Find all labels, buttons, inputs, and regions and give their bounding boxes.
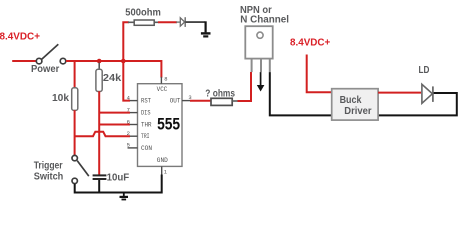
wire: bottom ground bus — [75, 175, 162, 193]
wire: ? ohms to transistor gate — [238, 72, 252, 101]
lead: into 500ohm — [128, 21, 134, 23]
svg-text:DIS: DIS — [141, 110, 151, 117]
svg-text:Switch: Switch — [34, 171, 64, 183]
svg-text:500ohm: 500ohm — [125, 6, 161, 18]
resistor R3 24k — [96, 69, 121, 91]
buck driver module — [332, 89, 378, 120]
wire: left supply feed — [12, 60, 36, 62]
svg-text:Power: Power — [31, 63, 59, 75]
svg-text:Driver: Driver — [344, 105, 371, 117]
svg-text:OUT: OUT — [170, 98, 181, 105]
wire: OUT pin to ? ohms — [190, 100, 212, 102]
pin 2 stub TRI — [127, 130, 138, 137]
svg-text:GND: GND — [157, 157, 168, 164]
svg-text:6: 6 — [127, 118, 130, 125]
svg-text:2: 2 — [127, 130, 130, 137]
svg-text:LD: LD — [419, 64, 430, 76]
wire: Q1 drain to bottom return bus to LD cathode — [270, 72, 457, 115]
wire: buck driver to LD anode — [378, 92, 421, 94]
resistor R2 10k — [52, 88, 78, 111]
svg-text:THR: THR — [141, 122, 152, 129]
pin 1 stub GND — [162, 166, 168, 175]
pin 7 stub DIS — [127, 106, 138, 113]
svg-text:10k: 10k — [52, 92, 69, 104]
transistor Q1 NPN / N-channel TO-220 — [240, 4, 289, 72]
svg-text:1: 1 — [164, 168, 168, 175]
op-amp U1 555 timer body — [138, 84, 183, 167]
pin 4 stub RST — [127, 94, 138, 101]
lead: ? ohms right — [232, 100, 238, 102]
wire: main power rail then down to VCC pin — [66, 61, 161, 78]
svg-text:CON: CON — [141, 145, 152, 152]
pin 5 stub CON (unconnected) — [127, 142, 138, 149]
wire: 24k bottom down to capacitor top plate — [98, 91, 100, 174]
lead: rail to 24k top — [98, 63, 100, 70]
svg-text:VCC: VCC — [157, 86, 168, 93]
wire: DIS from cap line — [99, 112, 130, 114]
capacitor C1 10uF — [93, 172, 130, 184]
laser diode LD — [419, 64, 433, 103]
node junction dot A — [97, 59, 102, 64]
svg-text:5: 5 — [127, 142, 130, 149]
svg-text:7: 7 — [127, 106, 130, 113]
resistor R1 500ohm — [125, 6, 161, 25]
wire: rail down to 10k — [74, 61, 76, 88]
svg-text:? ohms: ? ohms — [205, 87, 235, 99]
svg-text:10uF: 10uF — [107, 172, 130, 184]
svg-text:555: 555 — [157, 115, 180, 134]
wire: RST feed from rail junction B — [123, 61, 130, 101]
svg-text:8.4VDC+: 8.4VDC+ — [290, 37, 330, 49]
pin 3 stub OUT — [182, 94, 192, 101]
wire: THR from cap line — [99, 124, 130, 126]
svg-text:N Channel: N Channel — [240, 13, 289, 25]
wire: diode to ground G1 — [186, 21, 206, 23]
pin 6 stub THR — [127, 118, 138, 125]
pin 8 stub VCC — [161, 76, 167, 84]
svg-text:8.4VDC+: 8.4VDC+ — [0, 30, 40, 42]
svg-text:8: 8 — [164, 76, 167, 83]
svg-text:TRI: TRI — [141, 133, 150, 140]
wire: TRI from trigger line with hop over cap line — [75, 132, 130, 137]
lead + wire: 500ohm to diode — [154, 21, 158, 23]
ground G1 — [201, 33, 211, 36]
switch S2 trigger — [34, 155, 89, 183]
wire: right supply into buck driver — [307, 55, 332, 93]
svg-text:24k: 24k — [103, 72, 121, 84]
resistor R4 ? ohms — [205, 87, 235, 105]
ground G2 — [120, 194, 129, 200]
switch S1 Power — [31, 44, 66, 75]
wire: 10k bottom down to trigger switch — [74, 110, 76, 155]
ground arrow on Q1 source pin — [257, 72, 265, 91]
node junction dot B — [121, 59, 126, 64]
wire: capacitor bottom to ground bus — [98, 180, 100, 193]
wire: junction B up to 500ohm — [123, 22, 129, 61]
svg-text:RST: RST — [141, 98, 151, 105]
diode D1 — [176, 17, 185, 27]
